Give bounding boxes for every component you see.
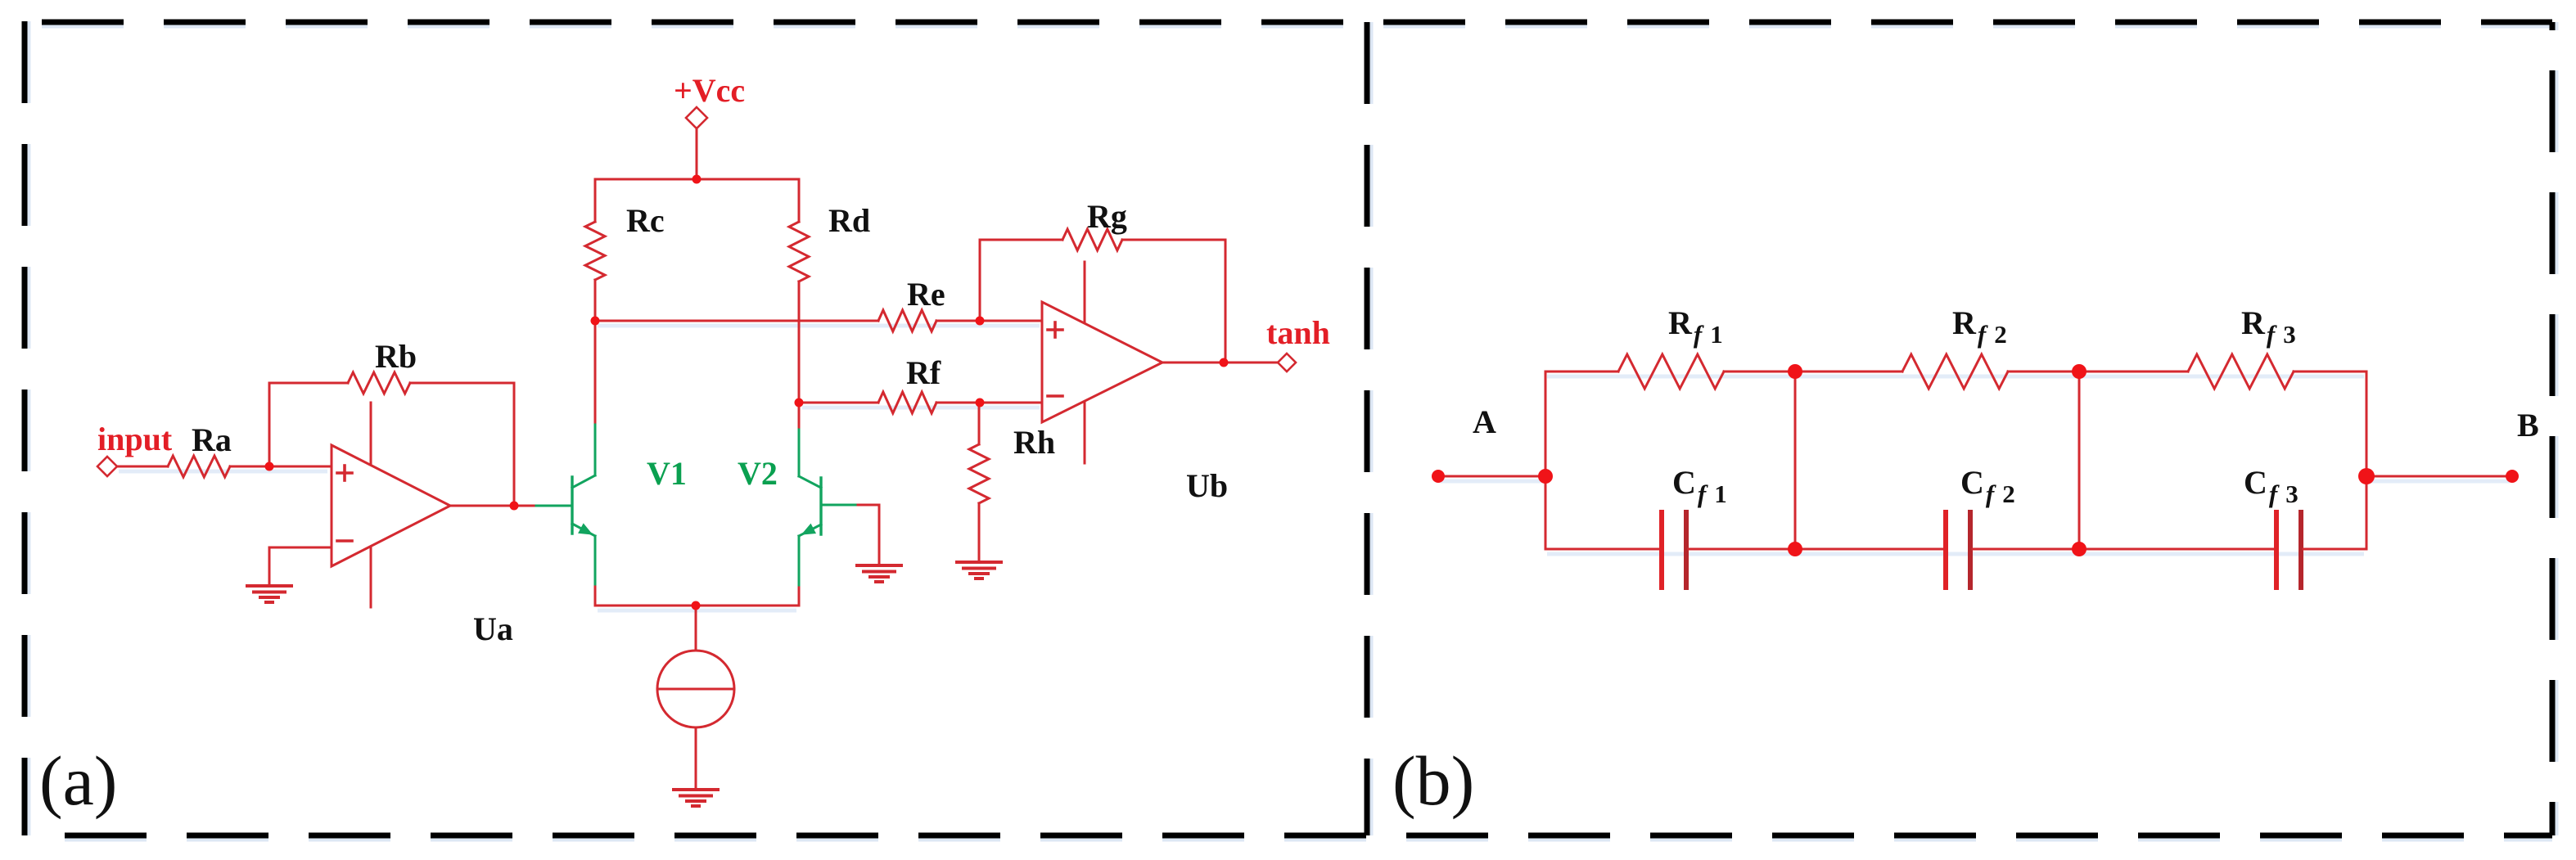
wire to ground <box>268 547 271 584</box>
wire emitters common rail <box>595 605 799 607</box>
op-amp Ub bottom power pin <box>1084 402 1086 463</box>
V1 emitter wire green <box>594 536 597 584</box>
wire node3 vertical <box>2078 371 2081 549</box>
node 3 top dot <box>2072 364 2087 379</box>
svg-text:Rd: Rd <box>828 202 870 239</box>
wire Ua output to V1 base (green) <box>536 505 572 507</box>
resistor Rb <box>348 372 410 394</box>
svg-text:Ua: Ua <box>473 610 513 647</box>
node Rd bottom <box>795 398 804 407</box>
wire Rd bottom <box>798 281 801 403</box>
op-amp Ub plus sign <box>1048 322 1062 337</box>
V1 collector wire green <box>594 425 597 475</box>
wire node B to terminal B <box>2366 475 2512 478</box>
transistor V2 base bar <box>819 478 822 534</box>
capacitor Cf3 <box>2276 512 2301 588</box>
wire V1 collector red top <box>594 321 597 425</box>
wire Ua output <box>450 505 536 507</box>
node input-Ra <box>265 462 274 471</box>
svg-text:A: A <box>1473 403 1496 440</box>
node Ub + input <box>976 317 985 326</box>
svg-text:Rc: Rc <box>626 202 665 239</box>
wire Rb to output <box>410 383 514 506</box>
wire Rf3 to node B vertical <box>2294 371 2366 549</box>
svg-text:tanh: tanh <box>1266 314 1330 351</box>
svg-text:(b): (b) <box>1392 741 1474 820</box>
ground current source <box>674 790 718 806</box>
wire feedback left <box>269 382 348 385</box>
op-amp Ub minus sign <box>1048 394 1062 398</box>
svg-text:Rh: Rh <box>1013 424 1055 461</box>
resistor Rf3 <box>2188 354 2294 389</box>
current source bar <box>657 688 734 691</box>
op-amp Ub top power pin <box>1084 262 1086 322</box>
resistor Rf <box>878 392 936 413</box>
node Ub - input <box>976 398 985 407</box>
labels panel a <box>192 198 1228 647</box>
current source I0 circle <box>657 651 734 727</box>
wire node Rd to Rf <box>799 402 878 404</box>
wire bottom rail 2 <box>1689 548 1943 551</box>
node Vcc rail <box>692 175 702 184</box>
capacitor Cf1 <box>1662 512 1686 588</box>
op-amp Ua bottom power pin <box>370 547 372 607</box>
wire Rg right leg to output <box>1122 240 1225 362</box>
wire bottom rail 1 <box>1545 548 1659 551</box>
V2 base wire green <box>821 504 855 507</box>
resistor Rf2 <box>1902 354 2008 389</box>
wire shadows <box>119 326 2510 610</box>
V1 emitter diagonal <box>572 524 595 536</box>
svg-text:+Vcc: +Vcc <box>674 72 745 109</box>
transistor V1 base bar <box>571 477 573 534</box>
resistor Rh <box>969 444 989 503</box>
wire bottom rail 3 <box>1973 548 2274 551</box>
junction dots panel a <box>265 175 1229 610</box>
node 3 bottom dot <box>2072 542 2087 556</box>
wire Ub output to tanh <box>1162 362 1278 364</box>
current source stem bottom <box>695 727 697 788</box>
node Ua output <box>510 502 519 511</box>
terminal B dot <box>2506 470 2519 483</box>
svg-text:Rg: Rg <box>1087 198 1127 235</box>
wire Rc bottom <box>594 280 597 321</box>
wire terminal A <box>1438 475 1545 478</box>
svg-text:Rb: Rb <box>375 338 417 375</box>
input terminal diamond <box>97 457 117 476</box>
resistor Ra <box>168 456 230 477</box>
node B junction dot <box>2358 468 2375 484</box>
wire V2 collector red top <box>798 403 801 430</box>
node Rc bottom <box>591 317 600 326</box>
wire Re to Ub + input <box>936 320 1042 322</box>
op-amp Ua minus sign <box>337 539 352 543</box>
svg-text:Rf: Rf <box>906 354 941 391</box>
svg-text:V2: V2 <box>738 455 778 492</box>
ground <box>247 586 291 602</box>
node 2 bottom dot <box>1788 542 1802 556</box>
svg-text:input: input <box>97 421 173 457</box>
node Ub output <box>1220 358 1229 367</box>
resistor Rh stem <box>978 403 981 444</box>
op-amp Ua top power pin <box>370 403 372 463</box>
node A junction dot <box>1538 469 1553 484</box>
svg-text:Ub: Ub <box>1186 467 1228 504</box>
V2 emitter wire green <box>798 536 801 585</box>
wire Rc top rail <box>595 179 799 222</box>
dots panel b <box>1432 364 2519 556</box>
resistor Rf1 <box>1618 354 1724 389</box>
ground V2 base <box>857 565 901 582</box>
op-amp U_a triangle <box>332 445 450 566</box>
wire V2 base to ground <box>855 505 879 564</box>
Vcc stem <box>696 128 698 179</box>
svg-text:(a): (a) <box>39 741 117 820</box>
node emitters <box>692 601 701 610</box>
current source I0 stem top <box>695 606 697 651</box>
panel divider <box>1365 22 1370 835</box>
op-amp U_b triangle <box>1042 302 1162 422</box>
ground Rh <box>957 562 1001 579</box>
wire Rf to Ub - input <box>936 402 1042 404</box>
resistor Rd <box>789 222 809 281</box>
+Vcc terminal diamond <box>686 107 707 128</box>
V1 collector diagonal <box>572 475 595 488</box>
svg-text:B: B <box>2517 407 2539 444</box>
resistor Rg <box>1062 229 1122 250</box>
wire V1 emitter red bottom <box>594 584 597 606</box>
op-amp Ua plus sign <box>337 466 352 480</box>
svg-text:V1: V1 <box>647 455 687 492</box>
wire Rh to ground <box>978 503 981 561</box>
tanh terminal diamond <box>1278 353 1296 371</box>
wire bottom rail 4 <box>2303 548 2366 551</box>
svg-text:Re: Re <box>907 276 945 313</box>
wire Rf1 to Rf2 <box>1724 371 1902 373</box>
V2 collector diagonal <box>799 476 821 488</box>
wire Rf2 to Rf3 <box>2008 371 2188 373</box>
resistor Rc <box>585 222 605 280</box>
terminal A dot <box>1432 470 1445 483</box>
V2 collector wire green <box>798 430 801 476</box>
wire inverting input <box>269 547 332 549</box>
wire Ra to op-amp + input <box>230 466 332 468</box>
wire node1 vertical <box>1545 371 1547 549</box>
wire input to Ra <box>117 466 168 468</box>
svg-text:Ra: Ra <box>192 421 232 458</box>
node 2 top dot <box>1788 364 1802 379</box>
wire top rail to Rf1 <box>1545 371 1618 373</box>
wire node Rc to Re <box>595 320 878 322</box>
capacitor Cf2 <box>1946 512 1970 588</box>
resistor Re <box>878 310 936 331</box>
green transistor pair <box>536 425 855 585</box>
V2 emitter arrow <box>801 524 816 535</box>
V2 emitter diagonal <box>799 525 821 536</box>
wire node2 vertical <box>1794 371 1797 549</box>
labels panel b <box>1473 304 2539 508</box>
wire V2 emitter red bottom <box>798 585 801 606</box>
V1 emitter arrow <box>578 523 593 534</box>
wire Rg feedback left leg <box>980 240 1062 321</box>
wire node A up to feedback <box>268 383 271 466</box>
